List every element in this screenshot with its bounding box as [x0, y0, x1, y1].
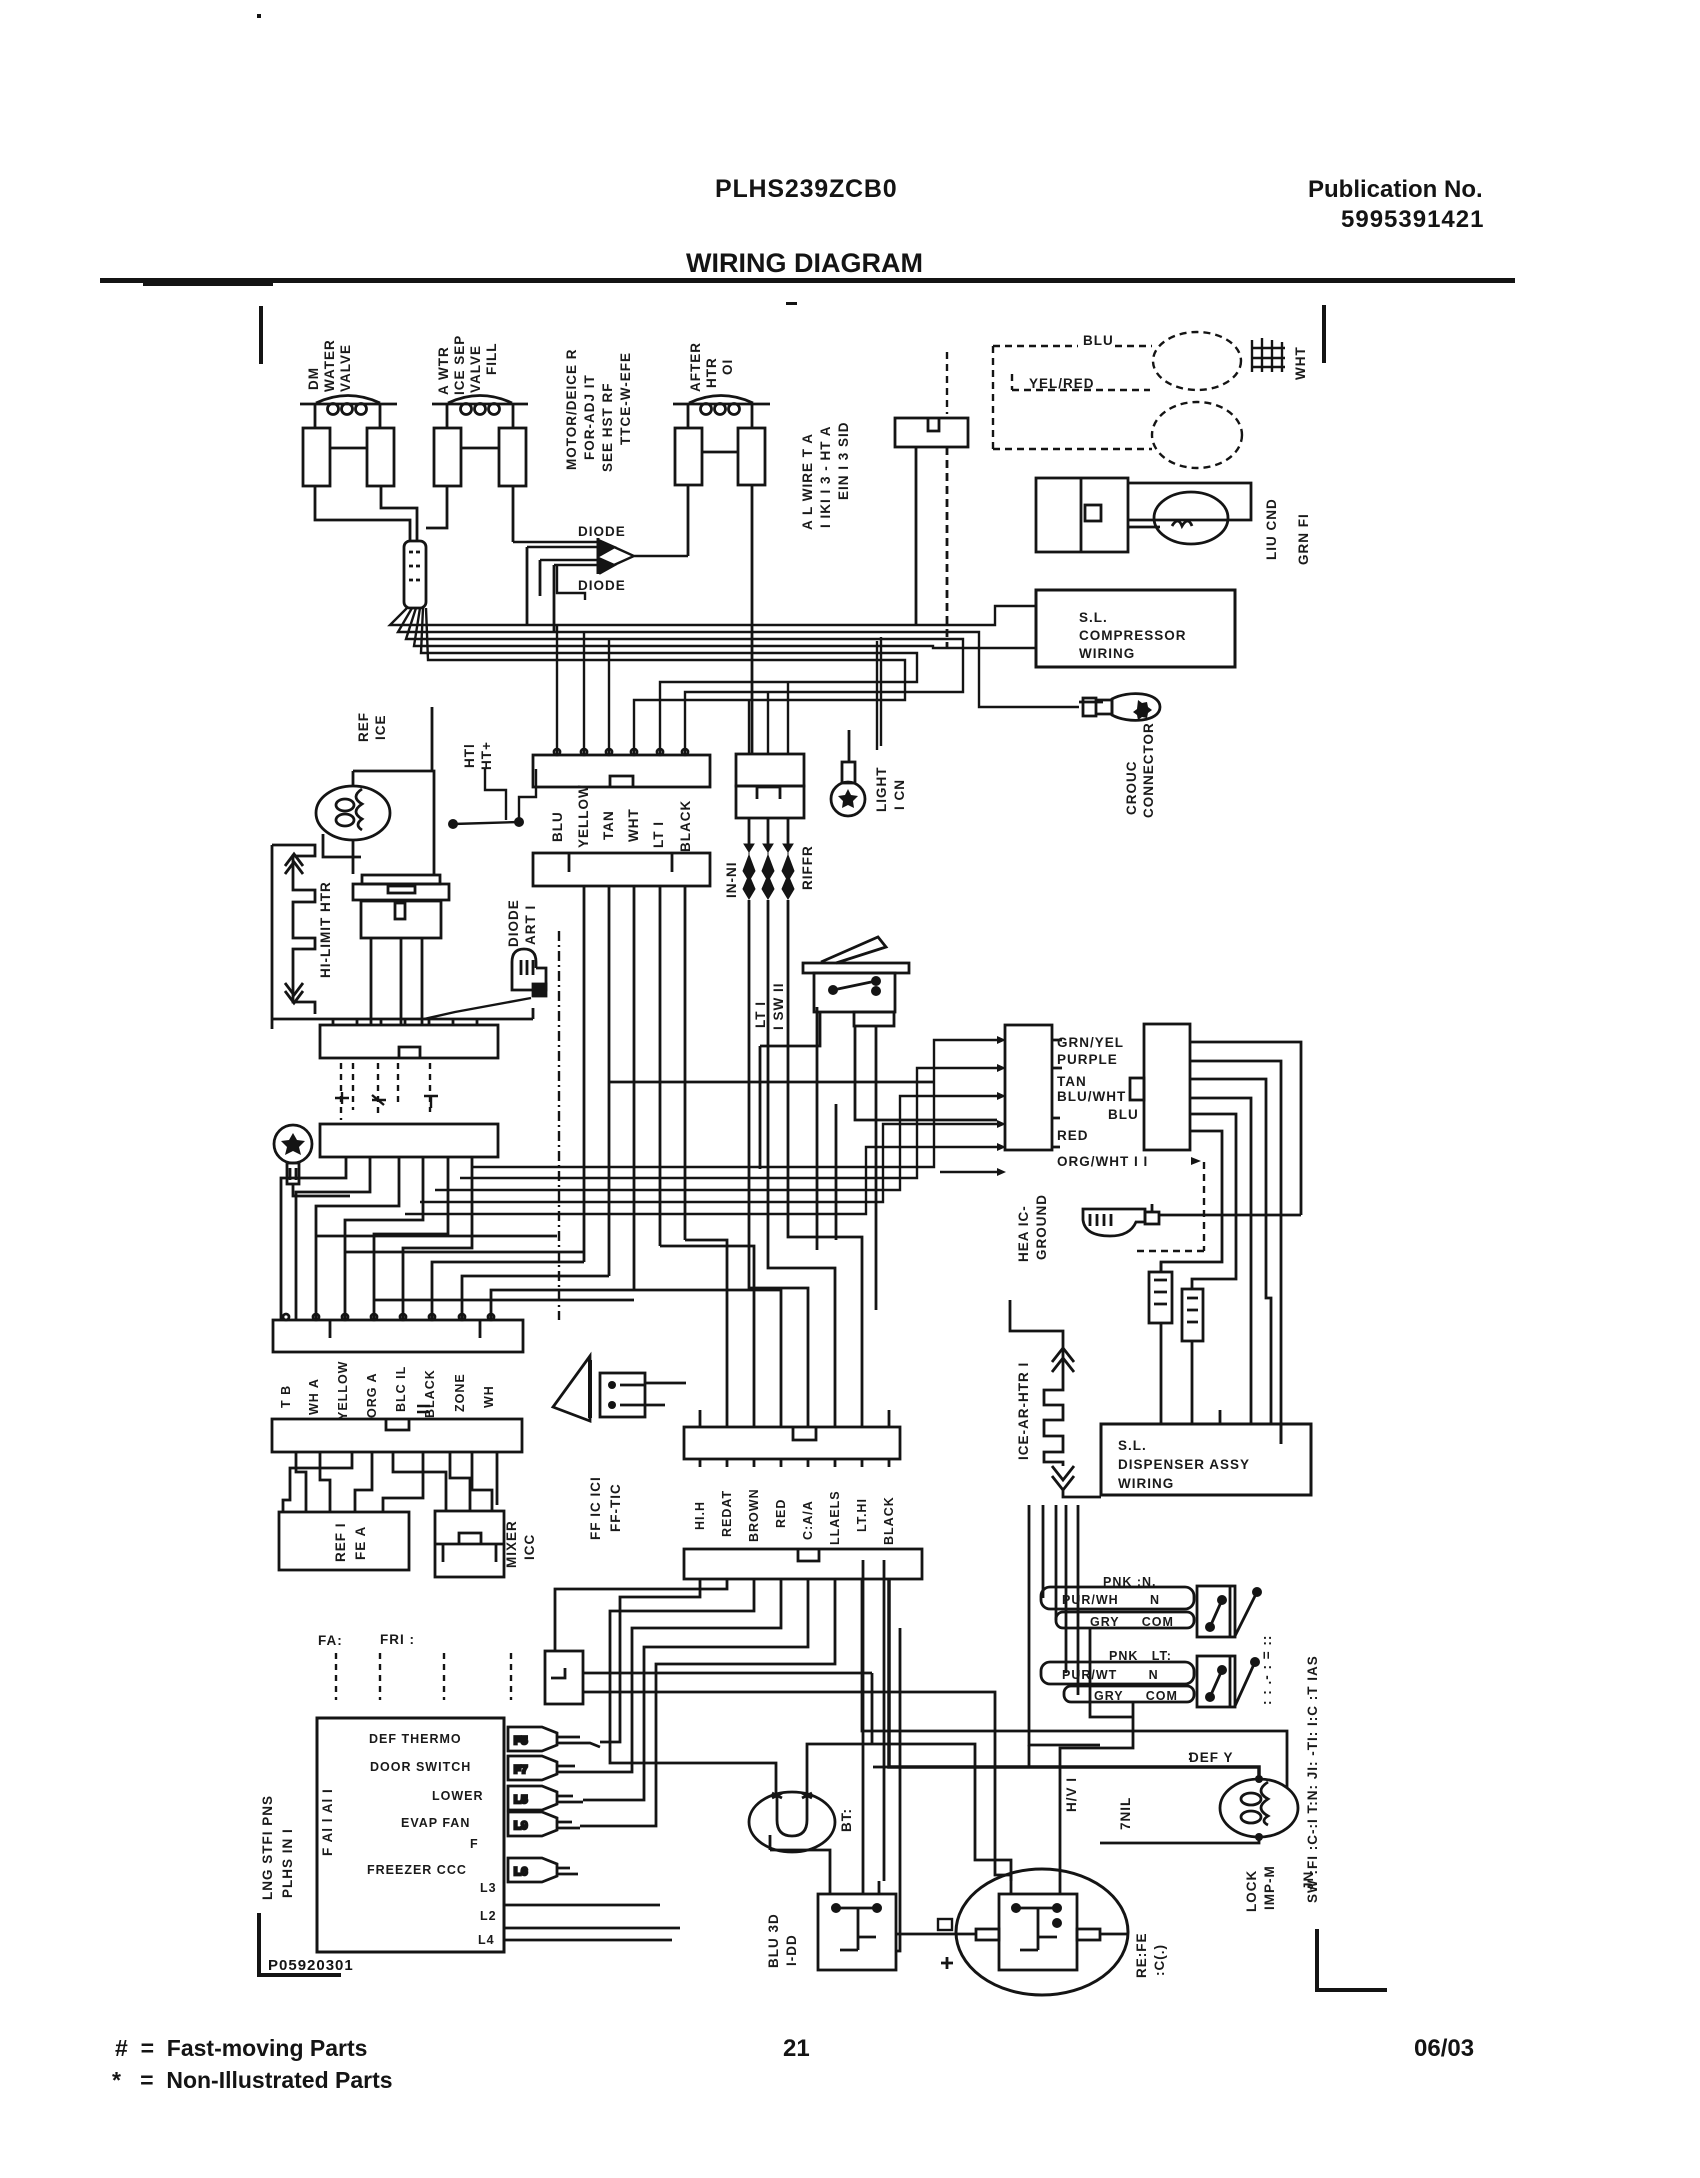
crop mark bottom-left [259, 1913, 341, 1975]
main harness connector lower [533, 853, 710, 886]
water valve 1 body [303, 428, 394, 486]
thermal fuse [424, 949, 546, 1019]
cabinet connector left [1005, 1025, 1062, 1150]
svg-text:L4: L4 [478, 1933, 495, 1947]
svg-text:S.L.: S.L. [1079, 610, 1108, 625]
svg-text:VALVE: VALVE [338, 344, 353, 392]
compressor wiring box [1036, 590, 1235, 667]
svg-text:Publication No.: Publication No. [1308, 176, 1483, 203]
water valve 1 coil [300, 396, 397, 429]
label lock imp fan [1244, 1865, 1316, 1912]
svg-text:PURPLE: PURPLE [1057, 1052, 1118, 1067]
svg-text:TTCE-W-EFE: TTCE-W-EFE [618, 352, 633, 445]
dispenser heater comb [1010, 1300, 1101, 1497]
svg-text:ART I: ART I [523, 905, 538, 945]
svg-text:LIGHT: LIGHT [874, 767, 889, 813]
svg-text:EIN I 3 SID: EIN I 3 SID [836, 421, 851, 500]
svg-text:LT.HI: LT.HI [855, 1498, 869, 1532]
svg-text:JN: JN [1301, 1871, 1316, 1890]
svg-text:YELLOW: YELLOW [576, 784, 591, 848]
svg-text:BLU: BLU [1083, 333, 1114, 348]
label light switch [753, 983, 786, 1031]
defrost timer stack [353, 875, 449, 1025]
ref door switch terminals [1041, 1662, 1194, 1702]
svg-text:DOOR SWITCH: DOOR SWITCH [370, 1760, 471, 1774]
svg-text:L2: L2 [480, 1909, 497, 1923]
svg-text:WHT: WHT [626, 808, 641, 842]
label after heater [688, 342, 735, 392]
svg-text:CONNECTOR: CONNECTOR [1141, 722, 1156, 818]
svg-text:PUR/WH N: PUR/WH N [1062, 1593, 1160, 1607]
bus drop wires [557, 625, 609, 755]
harness vertical bus [584, 886, 934, 1410]
lower cabinet connector [272, 1419, 522, 1460]
label water valve 1 [306, 339, 353, 392]
svg-text:DIODE: DIODE [578, 578, 626, 593]
cabinet connector right [1130, 1024, 1190, 1150]
spade terminal F7 [508, 1756, 585, 1780]
svg-text:HI-LIMIT HTR: HI-LIMIT HTR [318, 881, 333, 978]
compressor circle [956, 1869, 1128, 1995]
svg-text:PUR/WT N: PUR/WT N [1062, 1668, 1159, 1682]
ground connector lug [1079, 694, 1160, 721]
svg-text:ICE-AR-HTR I: ICE-AR-HTR I [1016, 1362, 1031, 1460]
label diode art [506, 899, 538, 947]
svg-text:CROUC: CROUC [1124, 761, 1139, 816]
power cord star [281, 1133, 305, 1155]
svg-text:HTl: HTl [462, 743, 477, 768]
svg-text:GROUND: GROUND [1034, 1194, 1049, 1260]
svg-text:COMPRESSOR: COMPRESSOR [1079, 628, 1187, 643]
bus line 3 [440, 639, 963, 755]
label relay overload [1134, 1933, 1167, 1979]
svg-text:DISPENSER ASSY: DISPENSER ASSY [1118, 1457, 1250, 1472]
svg-text:ICC: ICC [522, 1534, 537, 1560]
svg-text:.: . [1188, 1748, 1193, 1763]
label def timer [588, 1476, 623, 1540]
svg-text:A L WIRE T A: A L WIRE T A [800, 433, 815, 530]
control board pin labels [367, 1732, 497, 1947]
ground lug star [1133, 700, 1152, 720]
svg-text:LT I: LT I [753, 1001, 768, 1028]
svg-text:LNG STFI PNS: LNG STFI PNS [260, 1795, 275, 1900]
switch connector block [736, 754, 804, 845]
label ref door [356, 712, 388, 742]
ref box dashed text [333, 1522, 368, 1562]
bottom connector labels [693, 1488, 896, 1545]
svg-text:F5: F5 [514, 1735, 528, 1747]
svg-text:FRI :: FRI : [380, 1632, 415, 1647]
svg-text:FE A: FE A [353, 1526, 368, 1560]
svg-text:OI: OI [720, 359, 735, 375]
svg-text:AFTER: AFTER [688, 342, 703, 392]
svg-text:WH A: WH A [307, 1378, 321, 1415]
svg-text:PLHS239ZCB0: PLHS239ZCB0 [715, 175, 897, 203]
triple arrows down [743, 844, 794, 899]
label ground connector [1124, 722, 1156, 818]
bus line 2 [440, 632, 1079, 707]
svg-text:WATER: WATER [322, 339, 337, 392]
freezer door switch [1197, 1586, 1257, 1637]
svg-text:RED: RED [774, 1499, 788, 1528]
svg-text:LIU CND: LIU CND [1264, 498, 1279, 560]
thermal cutout 1 [1149, 1262, 1172, 1424]
terminal board upper [320, 1018, 498, 1058]
label adc [462, 741, 494, 770]
diode junction [614, 547, 688, 565]
wire bus fan [390, 606, 1079, 755]
svg-text:TAN: TAN [1057, 1074, 1087, 1089]
sl light bulb [831, 730, 865, 816]
svg-text:ICE: ICE [373, 714, 388, 740]
stray dot top [257, 14, 261, 18]
defrost heater horseshoe [749, 1792, 835, 1852]
harness drop wires [555, 1579, 1287, 1826]
svg-text:WIRING: WIRING [1079, 646, 1135, 661]
svg-text:P05920301: P05920301 [268, 1957, 354, 1974]
board stub wires [504, 1905, 680, 1940]
comb arrows up [285, 854, 303, 874]
control board [317, 1718, 504, 1952]
light housing [323, 707, 434, 874]
lower harness strip [684, 1549, 922, 1579]
condenser fan light [1128, 492, 1228, 544]
dashed sensor wires [947, 346, 1152, 450]
svg-text:: : .- : = ::: : : .- : = :: [1259, 1635, 1274, 1705]
svg-text:YEL/RED: YEL/RED [1029, 376, 1095, 391]
svg-text:ORG A: ORG A [365, 1372, 379, 1418]
equals mark [417, 1406, 430, 1412]
svg-text:WIRING: WIRING [1118, 1476, 1174, 1491]
svg-text:MOTOR/DEICE R: MOTOR/DEICE R [564, 348, 579, 470]
svg-text:RE:FE: RE:FE [1134, 1933, 1149, 1979]
svg-text:F7: F7 [514, 1764, 528, 1776]
thermostat box [895, 418, 968, 648]
svg-text:I CN: I CN [892, 779, 907, 810]
svg-text:FOR-ADJ IT: FOR-ADJ IT [582, 374, 597, 460]
compressor feed wires [770, 1560, 1133, 1951]
label water valve 2 [436, 335, 499, 395]
ref compartment box [279, 1512, 409, 1570]
svg-text:GRY COM: GRY COM [1090, 1615, 1174, 1629]
connector plug left [404, 541, 426, 608]
svg-text:I IKI I 3 - HT A: I IKI I 3 - HT A [818, 425, 833, 528]
harness connector J1 [273, 1314, 523, 1352]
svg-text:EVAP FAN: EVAP FAN [401, 1816, 470, 1830]
svg-text:H/V I: H/V I [1064, 1777, 1079, 1812]
wire color labels [550, 784, 693, 852]
title rule [100, 278, 1515, 283]
label all wiring note [800, 421, 851, 530]
svg-text:VALVE: VALVE [468, 345, 483, 393]
defrost bulb [1100, 1779, 1298, 1843]
bus line 1 [440, 606, 1037, 625]
svg-text:LLAELS: LLAELS [828, 1490, 842, 1545]
label light [874, 767, 907, 813]
dashed loop top [1153, 332, 1241, 390]
dashed loop bottom [1152, 402, 1242, 468]
spade terminal L5 [508, 1786, 583, 1810]
svg-text:BLACK: BLACK [423, 1369, 437, 1418]
spade terminal L9 [508, 1812, 580, 1836]
svg-text:21: 21 [783, 2035, 810, 2062]
water valve 2 body [434, 428, 526, 486]
svg-text:ICE SEP: ICE SEP [452, 335, 467, 395]
svg-text:SW :FI :C-:I T:N: JI: -TI: I:C: SW :FI :C-:I T:N: JI: -TI: I:C :T IAS [1305, 1655, 1320, 1903]
heater ground lug [1083, 1204, 1301, 1236]
icemaker plug [818, 1881, 896, 1970]
cabinet wire labels [1057, 1035, 1148, 1169]
alarm buzzer [553, 1356, 686, 1421]
hatch pad [1252, 338, 1285, 372]
svg-text:REDAT: REDAT [720, 1490, 734, 1537]
svg-text:ZONE: ZONE [453, 1373, 467, 1412]
diode 1 [513, 524, 626, 556]
horseshoe feed wires [807, 1673, 1011, 1881]
mixer box [435, 1511, 504, 1577]
relay box [1036, 478, 1251, 552]
svg-text:I SW II: I SW II [771, 983, 786, 1031]
J1 wire labels [279, 1361, 496, 1420]
main harness connector upper [533, 749, 710, 787]
svg-text:* = Non-Illustrated Parts: * = Non-Illustrated Parts [112, 2067, 393, 2093]
bus line 6 [440, 660, 905, 755]
svg-text:L5: L5 [514, 1794, 528, 1806]
svg-text:IN-NI: IN-NI [724, 862, 739, 899]
ref door switch [1197, 1656, 1255, 1707]
svg-text:REF I: REF I [333, 1522, 348, 1562]
dashed stubs [341, 1063, 430, 1120]
svg-text:LOWER: LOWER [432, 1789, 484, 1803]
svg-text:RED: RED [1057, 1128, 1089, 1143]
svg-text:BLC IL: BLC IL [394, 1366, 408, 1412]
svg-text:YELLOW: YELLOW [336, 1361, 350, 1420]
svg-text:FREEZER CCC: FREEZER CCC [367, 1863, 467, 1877]
label mixer [504, 1520, 537, 1568]
svg-text:DM: DM [306, 367, 321, 390]
wires solenoids to connector [315, 485, 752, 754]
freezer light switch [760, 937, 997, 1250]
svg-text:7NIL: 7NIL [1118, 1797, 1133, 1830]
refrigerator light bulb [316, 786, 390, 840]
svg-text:LOCK: LOCK [1244, 1870, 1259, 1912]
comb arrows down [285, 983, 303, 1003]
svg-text:BLACK: BLACK [882, 1496, 896, 1545]
after heater body [675, 428, 765, 485]
svg-text:ORG/WHT I I: ORG/WHT I I [1057, 1154, 1148, 1169]
svg-text:S.L.: S.L. [1118, 1438, 1147, 1453]
dashed ground path [1135, 1162, 1204, 1251]
svg-text:REF: REF [356, 712, 371, 742]
defrost relay box [545, 1651, 1011, 1881]
svg-text:FF IC ICI: FF IC ICI [588, 1476, 603, 1540]
svg-text:LT I: LT I [651, 821, 666, 848]
svg-text:DIODE: DIODE [578, 524, 626, 539]
def y wire [873, 1745, 1240, 1767]
left wire mesh [281, 1165, 634, 1320]
label switch voltage note [1259, 1635, 1320, 1903]
diode 2 [540, 556, 626, 593]
cross wires to cabinet [405, 1040, 997, 1214]
cabinet wires right [1161, 1042, 1301, 1444]
svg-text:DEF THERMO: DEF THERMO [369, 1732, 462, 1746]
svg-text::C(.): :C(.) [1152, 1944, 1167, 1976]
svg-text:HI.H: HI.H [693, 1501, 707, 1530]
svg-text:C:A/A: C:A/A [801, 1500, 815, 1540]
freezer door switch terminals [1041, 1587, 1194, 1628]
svg-text:MIXER: MIXER [504, 1520, 519, 1568]
svg-text:DEF Y: DEF Y [1189, 1750, 1234, 1765]
svg-text:BLU 3D: BLU 3D [766, 1913, 781, 1968]
svg-text:BLU: BLU [550, 811, 565, 842]
stray dash [786, 302, 797, 305]
svg-text:F Al l Al I: F Al l Al I [320, 1788, 335, 1856]
plus mark [941, 1957, 953, 1969]
label heater ground [1016, 1194, 1049, 1262]
svg-text:SEE HST RF: SEE HST RF [600, 382, 615, 472]
terminal board lower [320, 1124, 498, 1165]
svg-text:5995391421: 5995391421 [1341, 206, 1484, 233]
sl light star [838, 789, 858, 808]
svg-text:BT:: BT: [839, 1808, 854, 1832]
svg-text:HT+: HT+ [479, 741, 494, 770]
svg-text:FF-TIC: FF-TIC [608, 1483, 623, 1532]
label blu brn [766, 1913, 799, 1968]
spade terminal L6 [508, 1858, 578, 1882]
svg-text:L9: L9 [514, 1820, 528, 1832]
svg-text:GRY COM: GRY COM [1094, 1689, 1178, 1703]
bus line 4 [440, 646, 1037, 648]
thermal cutout 2 [1182, 1289, 1203, 1424]
power cord symbol [274, 1125, 350, 1196]
svg-text:BROWN: BROWN [747, 1488, 761, 1542]
svg-text:RIFFR: RIFFR [800, 845, 815, 890]
svg-text:WHT: WHT [1293, 346, 1308, 380]
svg-text:WH: WH [482, 1385, 496, 1408]
bus line 5 [440, 653, 917, 755]
svg-text:GRN/YEL: GRN/YEL [1057, 1035, 1124, 1050]
dash-dot divider [558, 931, 560, 1320]
svg-text:IMP-M: IMP-M [1262, 1865, 1277, 1910]
svg-text:FILL: FILL [484, 343, 499, 376]
svg-text:06/03: 06/03 [1414, 2035, 1474, 2062]
svg-text:L3: L3 [480, 1881, 497, 1895]
svg-text:WIRING DIAGRAM: WIRING DIAGRAM [686, 248, 923, 278]
after heater coil [673, 396, 770, 429]
svg-text:I-DD: I-DD [784, 1934, 799, 1966]
door switch feed wires [1029, 1505, 1133, 1745]
crop mark top-left [259, 306, 263, 364]
svg-text:T B: T B [279, 1385, 293, 1408]
spade terminal F5 [508, 1727, 600, 1751]
svg-text:BLU/WHT: BLU/WHT [1057, 1089, 1126, 1104]
compressor relay block [896, 1881, 1127, 1970]
svg-text:HEA IC-: HEA IC- [1016, 1205, 1031, 1262]
label main strip plug [260, 1788, 335, 1900]
svg-text:PLHS IN I: PLHS IN I [280, 1828, 295, 1898]
svg-text:TAN: TAN [601, 810, 616, 840]
icemaker heater comb [272, 845, 533, 1029]
door switch contacts [448, 769, 536, 829]
svg-text:GRN FI: GRN FI [1296, 513, 1311, 565]
dispenser wiring box [1101, 1410, 1311, 1495]
svg-text:F: F [470, 1837, 479, 1851]
svg-text:A WTR: A WTR [436, 346, 451, 395]
door switch feed stubs [1043, 1505, 1078, 1695]
crop mark top-right [1322, 305, 1326, 363]
svg-text:HTR: HTR [704, 357, 719, 388]
svg-text:BLACK: BLACK [678, 800, 693, 852]
crop mark bottom-right [1317, 1929, 1387, 1990]
svg-text:L6: L6 [514, 1866, 528, 1878]
label motor note [564, 348, 633, 472]
svg-text:DIODE: DIODE [506, 899, 521, 947]
mesh to ref boxes [283, 1460, 497, 1512]
svg-text:FA:: FA: [318, 1633, 343, 1648]
svg-text:# = Fast-moving Parts: # = Fast-moving Parts [115, 2035, 367, 2061]
water valve 2 coil [432, 396, 528, 429]
svg-text:BLU: BLU [1108, 1107, 1139, 1122]
